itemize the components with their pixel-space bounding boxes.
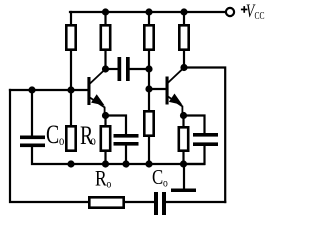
label Ro (middle)	[80, 120, 96, 149]
wire: Q2 base lead	[149, 88, 166, 90]
wire: R3 column resistor to bus	[148, 137, 150, 164]
ground	[171, 164, 196, 192]
label +Vcc	[241, 0, 265, 22]
node: Q2 collector	[180, 64, 187, 71]
wire: Q1 emitter resistor to ground bus	[104, 152, 106, 164]
capacitor Co (left feedback)	[20, 136, 45, 148]
capacitor C1 (coupling)	[118, 57, 130, 81]
resistor Ro (Q1 bias lower)	[66, 126, 75, 150]
resistor R1 (Q1 bias upper)	[66, 25, 75, 49]
wire: top supply rail	[70, 11, 226, 13]
wire: R3 column stub	[148, 12, 150, 24]
wire: Q2 collector to right feedback wire	[184, 68, 225, 203]
svg-text:o: o	[106, 178, 111, 191]
node: rail to R4	[180, 8, 187, 15]
node: coupling cap / R3 column	[145, 65, 152, 72]
svg-text:C: C	[46, 119, 59, 148]
node: bus / Q1 bypass cap	[122, 160, 129, 167]
svg-text:o: o	[163, 177, 168, 190]
resistor R7 (Q2 emitter)	[179, 127, 188, 150]
transistor Q1	[87, 70, 104, 116]
wire: Q1 base lead	[10, 89, 87, 91]
wire: coupling capacitor to R3 column	[130, 68, 149, 70]
node: rail to R2	[102, 8, 109, 15]
wire: Q2 emitter to bypass cap branch	[184, 116, 205, 134]
resistor R5 (Q1 emitter)	[101, 126, 110, 150]
wire: bottom resistor to bottom capacitor	[125, 201, 154, 203]
node: Q1 base / R1-Ro branch	[67, 86, 74, 93]
wire: R1 column stub	[70, 12, 72, 24]
wire: left feedback wire	[10, 90, 88, 202]
wire: Q1 emitter to emitter resistor	[104, 116, 106, 126]
wire: Q2 emitter resistor to bus	[182, 152, 184, 164]
resistor R4 (Q2 collector load)	[179, 25, 188, 49]
svg-text:R: R	[95, 167, 107, 191]
terminal +Vcc	[226, 8, 234, 16]
wire: Q1 collector to coupling capacitor	[106, 68, 118, 70]
node: bus / R6	[145, 160, 152, 167]
node: rail to R3	[145, 8, 152, 15]
capacitor C3 (Q2 emitter bypass)	[193, 133, 218, 146]
wire: R1 bottom to Q1 base node	[70, 51, 72, 125]
resistor Ro (feedback, bottom)	[89, 197, 123, 207]
transistor Q2	[166, 68, 184, 115]
node: Q2 emitter	[180, 112, 187, 119]
node: bus / Ro	[67, 160, 74, 167]
resistor R2 (Q1 collector load)	[101, 25, 110, 49]
svg-text:o: o	[59, 133, 64, 149]
wire: R2 bottom to Q1 collector node	[104, 51, 106, 69]
label Co (bottom)	[152, 166, 168, 189]
wire: R4 bottom to Q2 collector node	[183, 51, 185, 68]
wire: Q1 base node down to Co	[31, 90, 33, 136]
wire: R2 column stub	[104, 12, 106, 24]
node: Q1 emitter	[102, 112, 109, 119]
wire: R4 column stub	[183, 12, 185, 24]
capacitor C2 (Q1 emitter bypass)	[114, 134, 139, 146]
svg-text:C: C	[152, 166, 163, 189]
svg-text:o: o	[90, 133, 95, 149]
wire: Q1 bypass cap to bus	[125, 146, 127, 164]
wire: bottom capacitor to right feedback wire	[166, 201, 225, 203]
node: bus / Q1 emitter resistor	[102, 160, 109, 167]
svg-text:CC: CC	[255, 10, 265, 21]
wire: Co to bus left end	[32, 147, 204, 164]
label Co (left)	[46, 119, 64, 148]
wire: R3 bottom through coupling node to Q2 base node	[148, 51, 150, 110]
wire: Q2 emitter to emitter resistor	[182, 116, 184, 127]
capacitor Co (feedback, bottom)	[154, 192, 166, 215]
resistor R6 (Q2 bias lower)	[144, 111, 153, 135]
node: bus / ground	[180, 160, 187, 167]
node: Q2 base tap	[145, 85, 152, 92]
node: Q1 collector	[102, 65, 109, 72]
wire: Q2 bypass cap to bus	[184, 146, 205, 164]
node: Q1 base / C_o branch	[28, 86, 35, 93]
label Ro (bottom)	[95, 167, 112, 191]
resistor R3 (Q2 bias upper)	[144, 25, 153, 49]
wire: Q1 emitter to bypass cap branch	[106, 116, 127, 135]
